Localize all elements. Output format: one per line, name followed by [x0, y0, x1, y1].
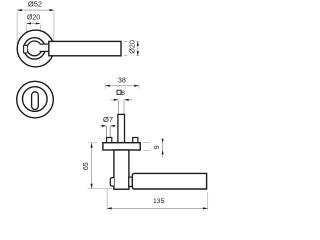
svg-text:Ø7: Ø7 [103, 115, 113, 124]
svg-text:8: 8 [121, 90, 125, 97]
svg-text:135: 135 [153, 198, 165, 205]
svg-text:Ø20: Ø20 [27, 15, 40, 22]
svg-text:Ø52: Ø52 [28, 0, 42, 9]
svg-text:9: 9 [154, 145, 161, 149]
svg-text:Ø20: Ø20 [128, 40, 137, 54]
svg-text:65: 65 [83, 162, 90, 170]
svg-text:38: 38 [118, 76, 126, 85]
